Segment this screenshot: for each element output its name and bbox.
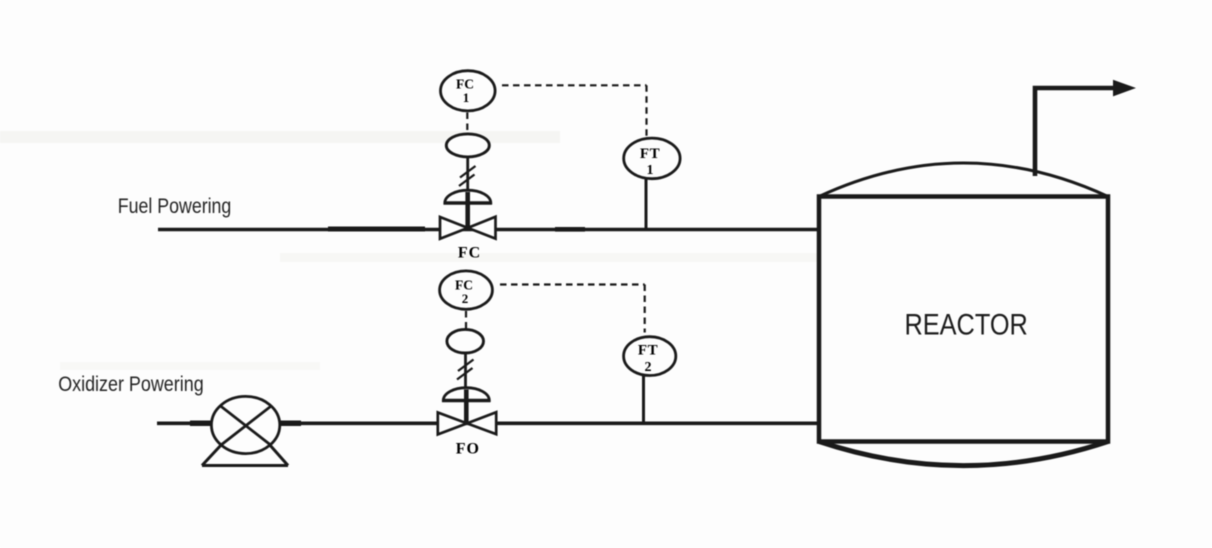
svg-text:2: 2: [645, 360, 652, 375]
svg-text:1: 1: [463, 90, 470, 105]
svg-text:FO: FO: [456, 441, 480, 458]
svg-text:Oxidizer Powering: Oxidizer Powering: [58, 373, 204, 396]
svg-text:FT: FT: [638, 343, 658, 359]
svg-text:FC: FC: [458, 245, 481, 262]
svg-text:REACTOR: REACTOR: [905, 309, 1028, 342]
svg-text:1: 1: [647, 163, 654, 178]
svg-text:2: 2: [462, 291, 469, 306]
svg-text:Fuel Powering: Fuel Powering: [118, 195, 232, 218]
svg-text:FT: FT: [640, 146, 660, 162]
